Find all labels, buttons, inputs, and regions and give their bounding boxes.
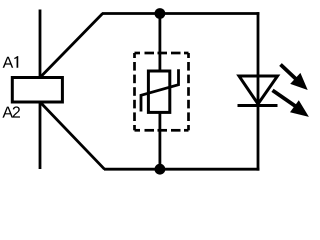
varistor RU diagonal stroke with bent ends [141,69,179,111]
junction dot: bottom node [155,164,166,175]
LED light emission arrow 2 head [290,100,309,117]
wire: middle vertical from varistor to bottom node [158,112,161,169]
LED V1 cathode bar [238,104,278,107]
pin label A1 [3,56,19,68]
LED light emission arrow 1 head [290,73,308,90]
wire: diagonal from A1 terminal to top rail [40,14,103,78]
dashed enclosure of suppressor module: top edge [135,52,189,55]
dashed enclosure of suppressor module: bottom edge [135,129,189,132]
junction dot: top node [155,8,166,19]
dashed enclosure of suppressor module: left edge [133,53,136,130]
coil K1 (contactor coil, terminals A1-A2) [12,78,62,103]
LED V1 triangle (anode) [239,76,278,104]
wire: top rail [102,12,259,15]
wire: diagonal from A2 terminal to bottom rail [40,102,105,169]
wire: middle vertical from top node to varistor [158,14,161,72]
LED light emission arrow 1 shaft [281,65,297,80]
LED light emission arrow 2 shaft [273,90,297,106]
dashed enclosure of suppressor module: right edge [187,53,190,130]
wire: right vertical branch (LED branch) [257,12,260,171]
varistor RU body [148,71,169,112]
wire: left vertical conductor below coil [39,102,42,169]
wire: left vertical conductor above coil [39,10,42,78]
wire: bottom rail [104,168,259,171]
pin label A2 [2,106,20,117]
